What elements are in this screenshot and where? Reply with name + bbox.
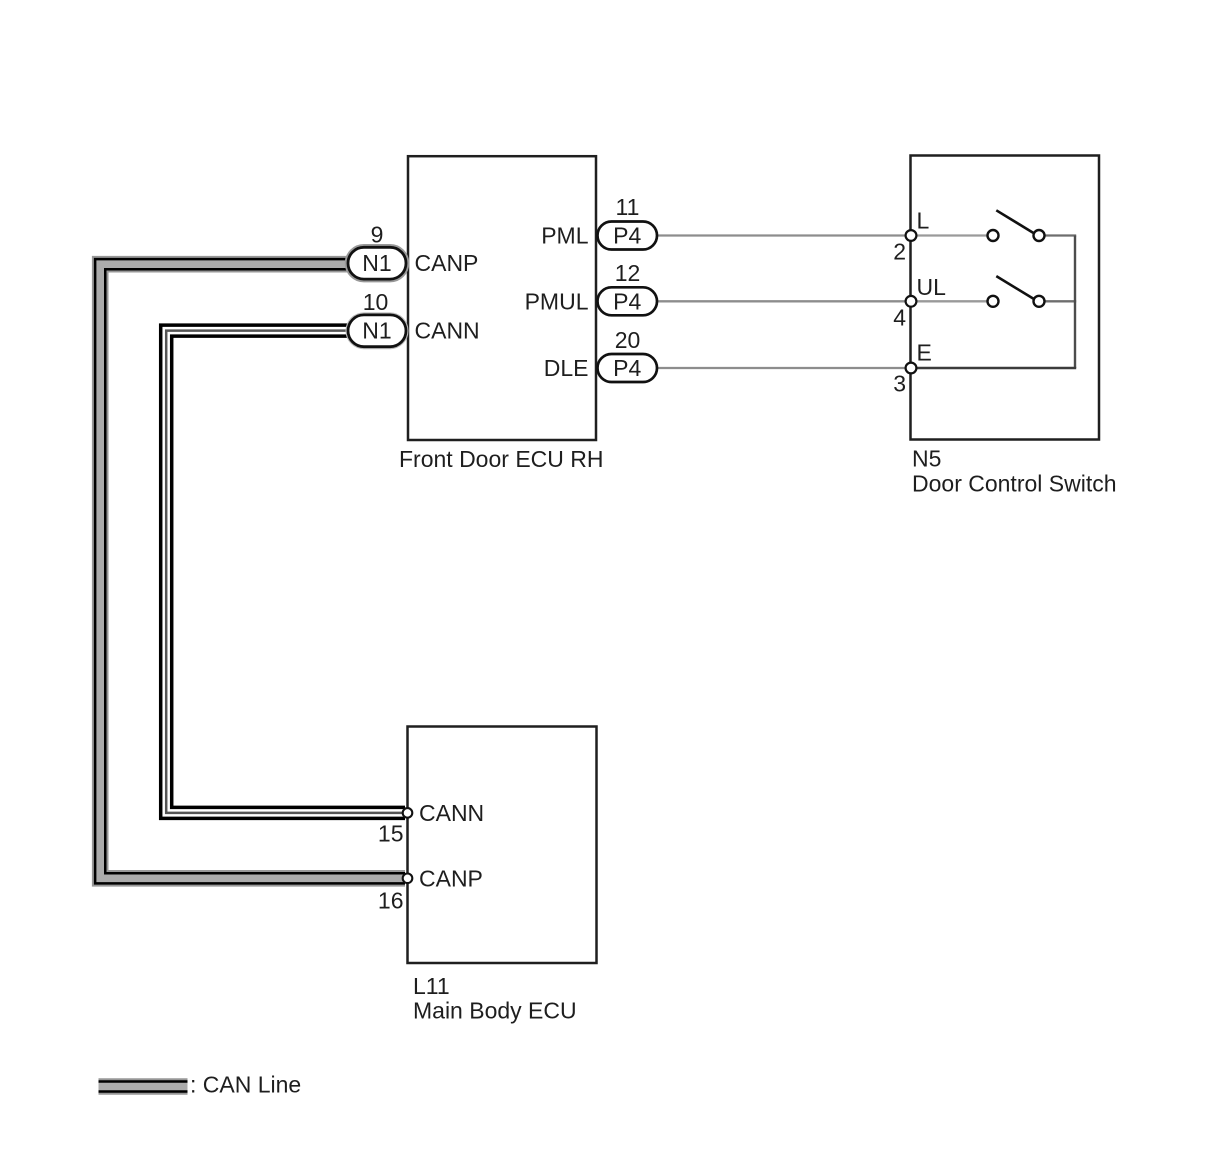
svg-text:CANN: CANN	[419, 800, 484, 826]
connector oval N1 pin 9	[348, 247, 406, 279]
L11 pin 15 terminal circle	[403, 808, 413, 818]
switch pin 4 terminal circle	[906, 296, 917, 307]
UL switch right contact circle	[1034, 296, 1045, 307]
svg-text:20: 20	[615, 327, 641, 353]
svg-text:P4: P4	[613, 355, 641, 381]
legend text CAN Line	[190, 1072, 301, 1098]
svg-text:E: E	[917, 340, 932, 366]
L switch right contact circle	[1034, 230, 1045, 241]
svg-text:: CAN Line: : CAN Line	[190, 1072, 301, 1098]
svg-text:DLE: DLE	[544, 355, 589, 381]
component label Door Control Switch	[912, 471, 1117, 497]
switch terminal label E	[917, 340, 932, 366]
component label Main Body ECU	[413, 998, 577, 1024]
wire UL right contact to bus	[1044, 300, 1076, 302]
pin label PMUL	[525, 288, 589, 314]
svg-text:L11: L11	[413, 973, 450, 999]
L switch blade	[996, 210, 1034, 233]
pin label DLE	[544, 355, 589, 381]
svg-text:9: 9	[371, 222, 384, 248]
svg-text:3: 3	[893, 371, 906, 397]
wire switch pin 4 to UL contact	[911, 300, 989, 302]
L switch left contact circle	[988, 230, 999, 241]
svg-text:N5: N5	[912, 446, 941, 472]
svg-text:P4: P4	[613, 288, 641, 314]
pin label CANN (Main Body ECU)	[419, 800, 484, 826]
svg-text:Door Control Switch: Door Control Switch	[912, 471, 1117, 497]
wire CANN CAN line (pin 10 N1 to L11 pin 15)	[166, 331, 405, 813]
UL switch blade	[996, 276, 1034, 299]
svg-text:CANN: CANN	[415, 318, 480, 344]
pin number 15	[378, 821, 404, 847]
connector label P4 (pin 11)	[613, 223, 641, 249]
wire CANP CAN line (pin 9 N1 to L11 pin 16)	[100, 264, 405, 878]
pin number 10	[363, 289, 389, 315]
pin number 16	[378, 888, 404, 914]
svg-text:PMUL: PMUL	[525, 288, 589, 314]
component ref L11	[413, 973, 450, 999]
pin number 11	[616, 194, 640, 220]
svg-text:N1: N1	[362, 250, 391, 276]
svg-text:P4: P4	[613, 223, 641, 249]
wire DLE to switch pin 3	[655, 367, 911, 369]
svg-text:Main Body ECU: Main Body ECU	[413, 998, 577, 1024]
connector label P4 (pin 20)	[613, 355, 641, 381]
svg-text:CANP: CANP	[419, 866, 483, 892]
svg-text:10: 10	[363, 289, 389, 315]
connector label P4 (pin 12)	[613, 288, 641, 314]
svg-text:12: 12	[615, 260, 641, 286]
switch box N5	[911, 156, 1100, 440]
component label Front Door ECU RH	[399, 446, 603, 472]
switch terminal label L	[917, 208, 930, 234]
legend CAN line swatch	[99, 1078, 188, 1095]
pin label PML	[541, 223, 589, 249]
svg-text:Front Door ECU RH: Front Door ECU RH	[399, 446, 603, 472]
wire switch pin 2 to L contact	[911, 234, 989, 236]
switch pin number 2	[893, 239, 906, 265]
ECU box Front Door ECU RH	[408, 156, 596, 440]
wire PML to switch pin 2	[655, 234, 911, 236]
pin number 9	[371, 222, 384, 248]
wire vertical bus inside switch	[1074, 236, 1076, 369]
svg-text:L: L	[917, 208, 930, 234]
wire E row pin 3 to bus	[911, 367, 1076, 369]
switch terminal label UL	[917, 274, 947, 300]
L11 pin 16 terminal circle	[403, 874, 413, 884]
switch pin number 3	[893, 371, 906, 397]
svg-text:UL: UL	[917, 274, 947, 300]
svg-text:2: 2	[893, 239, 906, 265]
connector label N1 (pin 10)	[362, 318, 391, 344]
connector oval N1 pin 10	[348, 315, 406, 347]
svg-text:CANP: CANP	[415, 250, 479, 276]
wire L right contact to bus	[1044, 234, 1076, 236]
pin label CANP (Main Body ECU)	[419, 866, 483, 892]
pin label CANN (Front Door ECU)	[415, 318, 480, 344]
connector label N1 (pin 9)	[362, 250, 391, 276]
switch pin 3 terminal circle	[906, 363, 917, 374]
switch pin 2 terminal circle	[906, 230, 917, 241]
svg-text:N1: N1	[362, 318, 391, 344]
svg-text:15: 15	[378, 821, 404, 847]
component ref N5	[912, 446, 941, 472]
pin label CANP (Front Door ECU)	[415, 250, 479, 276]
connector oval P4 pin 20	[598, 354, 658, 382]
ECU box L11 Main Body ECU	[408, 727, 597, 964]
svg-text:4: 4	[893, 305, 906, 331]
svg-text:16: 16	[378, 888, 404, 914]
svg-text:11: 11	[616, 194, 640, 220]
switch pin number 4	[893, 305, 906, 331]
pin number 12	[615, 260, 641, 286]
connector oval P4 pin 12	[598, 287, 658, 315]
svg-text:PML: PML	[541, 223, 589, 249]
pin number 20	[615, 327, 641, 353]
UL switch left contact circle	[988, 296, 999, 307]
connector oval P4 pin 11	[598, 222, 658, 250]
wire PMUL to switch pin 4	[655, 300, 911, 302]
